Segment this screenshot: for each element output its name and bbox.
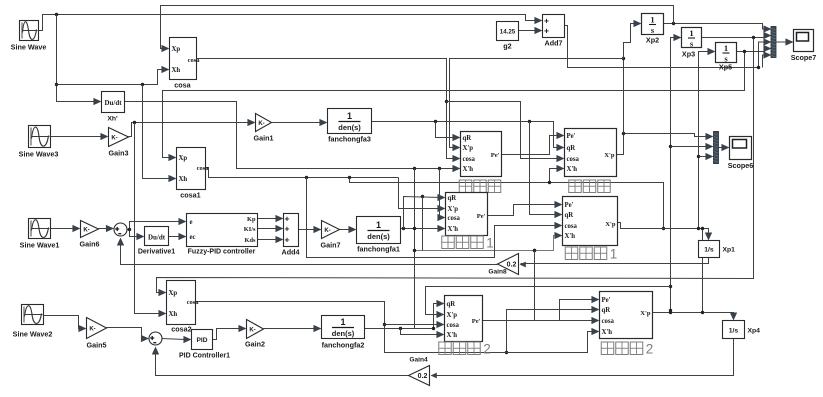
svg-text:Du/dt: Du/dt <box>104 99 122 107</box>
svg-text:Kds: Kds <box>244 237 256 244</box>
svg-text:X'p: X'p <box>448 206 459 213</box>
svg-text:Xp3: Xp3 <box>682 50 695 59</box>
svg-text:K-: K- <box>258 121 264 127</box>
svg-text:1: 1 <box>340 317 345 327</box>
svg-text:fanchongfa3: fanchongfa3 <box>328 135 371 144</box>
svg-text:PID: PID <box>197 337 208 344</box>
svg-text:X'h: X'h <box>448 226 459 233</box>
svg-text:Sine Wave: Sine Wave <box>11 43 47 52</box>
svg-text:1: 1 <box>610 247 618 262</box>
svg-text:Derivative1: Derivative1 <box>138 249 175 256</box>
svg-text:Xh: Xh <box>172 67 181 74</box>
svg-text:cosa: cosa <box>447 322 460 329</box>
svg-text:cosa: cosa <box>602 318 615 325</box>
svg-text:Sine Wave2: Sine Wave2 <box>13 330 53 339</box>
svg-text:0.2: 0.2 <box>418 373 428 380</box>
svg-text:g2: g2 <box>503 42 511 51</box>
svg-text:Pe': Pe' <box>477 213 486 220</box>
svg-text:qR: qR <box>463 135 472 142</box>
svg-text:den(s): den(s) <box>338 123 361 132</box>
svg-text:cosa: cosa <box>174 81 191 90</box>
svg-text:Add4: Add4 <box>282 248 300 257</box>
svg-text:fanchongfa2: fanchongfa2 <box>322 341 365 350</box>
svg-text:+: + <box>544 15 549 25</box>
svg-text:X'p: X'p <box>463 145 474 152</box>
svg-text:+: + <box>544 25 549 35</box>
svg-text:Xp: Xp <box>179 155 188 162</box>
svg-text:1/s: 1/s <box>704 247 714 254</box>
svg-text:Xp5: Xp5 <box>719 63 732 72</box>
svg-text:den(s): den(s) <box>332 329 355 338</box>
svg-text:X'p: X'p <box>447 312 458 319</box>
svg-text:Gain7: Gain7 <box>321 241 341 250</box>
svg-text:PID Controller1: PID Controller1 <box>179 353 230 360</box>
svg-text:cosa: cosa <box>448 215 461 222</box>
svg-text:Gain5: Gain5 <box>87 341 107 350</box>
svg-text:+: + <box>285 223 290 233</box>
svg-text:cosa1: cosa1 <box>180 191 200 200</box>
svg-text:Scope7: Scope7 <box>791 53 817 62</box>
svg-text:qR: qR <box>565 212 574 219</box>
svg-text:X'p: X'p <box>605 221 616 228</box>
svg-text:qR: qR <box>567 145 576 152</box>
svg-text:Pe': Pe' <box>491 152 500 159</box>
svg-text:1/s: 1/s <box>729 328 739 335</box>
svg-text:X'h: X'h <box>463 166 474 173</box>
svg-text:Scope6: Scope6 <box>728 161 754 170</box>
svg-text:Gain4: Gain4 <box>409 357 428 364</box>
svg-text:K-: K- <box>324 228 330 234</box>
svg-text:e: e <box>190 219 193 226</box>
svg-text:cosa: cosa <box>463 156 476 163</box>
svg-text:cosa2: cosa2 <box>171 325 191 334</box>
svg-text:14.25: 14.25 <box>500 29 516 36</box>
svg-text:X'h: X'h <box>447 332 458 339</box>
svg-text:+: + <box>285 213 290 223</box>
svg-text:qR: qR <box>448 195 457 202</box>
svg-text:cosa: cosa <box>197 165 210 172</box>
svg-text:Gain6: Gain6 <box>80 240 100 249</box>
svg-text:Xp4: Xp4 <box>748 328 761 335</box>
svg-text:Pe': Pe' <box>472 318 481 325</box>
svg-text:Xp: Xp <box>169 290 178 297</box>
svg-text:Add7: Add7 <box>545 39 563 48</box>
svg-text:Fuzzy-PID controller: Fuzzy-PID controller <box>188 249 256 256</box>
svg-text:Xp1: Xp1 <box>723 247 736 254</box>
svg-text:Xh: Xh <box>169 311 178 318</box>
svg-text:Pe': Pe' <box>567 133 576 140</box>
svg-text:K-: K- <box>83 227 89 233</box>
svg-text:cosa: cosa <box>567 156 580 163</box>
svg-text:X'h: X'h <box>567 166 578 173</box>
svg-text:X'p: X'p <box>604 152 615 159</box>
svg-text:1: 1 <box>650 15 654 25</box>
svg-text:cosa: cosa <box>187 299 200 306</box>
svg-text:ec: ec <box>190 234 196 241</box>
svg-text:X'h: X'h <box>602 329 613 336</box>
svg-text:Sine Wave3: Sine Wave3 <box>19 150 59 159</box>
svg-text:K-: K- <box>249 327 255 333</box>
svg-text:K-: K- <box>111 135 117 141</box>
svg-text:+: + <box>285 234 290 244</box>
svg-text:cosa: cosa <box>565 223 578 230</box>
svg-text:Gain1: Gain1 <box>254 134 274 143</box>
svg-text:Xp: Xp <box>172 46 181 53</box>
svg-text:Pe': Pe' <box>565 202 574 209</box>
svg-text:1: 1 <box>376 220 381 230</box>
svg-text:Kp: Kp <box>247 216 256 223</box>
svg-text:X'p: X'p <box>640 310 651 317</box>
svg-text:KI/s: KI/s <box>244 226 256 233</box>
svg-text:Xh': Xh' <box>107 116 118 123</box>
svg-text:Xp2: Xp2 <box>646 36 659 45</box>
svg-text:2: 2 <box>646 342 654 357</box>
svg-text:Du/dt: Du/dt <box>148 234 166 242</box>
svg-text:Sine Wave1: Sine Wave1 <box>20 241 60 250</box>
svg-text:Gain8: Gain8 <box>488 269 507 276</box>
svg-text:qR: qR <box>447 301 456 308</box>
svg-text:fanchongfa1: fanchongfa1 <box>357 245 400 254</box>
svg-text:cosa: cosa <box>188 57 201 64</box>
svg-text:1: 1 <box>347 111 352 121</box>
svg-text:1: 1 <box>724 43 728 53</box>
svg-text:1: 1 <box>486 236 494 251</box>
svg-text:1: 1 <box>689 28 693 38</box>
svg-text:Xh: Xh <box>179 176 188 183</box>
svg-text:den(s): den(s) <box>367 232 390 241</box>
svg-text:Gain3: Gain3 <box>109 149 129 158</box>
svg-text:0.2: 0.2 <box>507 262 517 269</box>
svg-text:qR: qR <box>602 307 611 314</box>
svg-text:2: 2 <box>483 342 491 357</box>
svg-text:Pe': Pe' <box>602 297 611 304</box>
svg-text:X'h: X'h <box>565 233 576 240</box>
svg-text:Gain2: Gain2 <box>245 340 265 349</box>
svg-text:K-: K- <box>89 326 95 332</box>
